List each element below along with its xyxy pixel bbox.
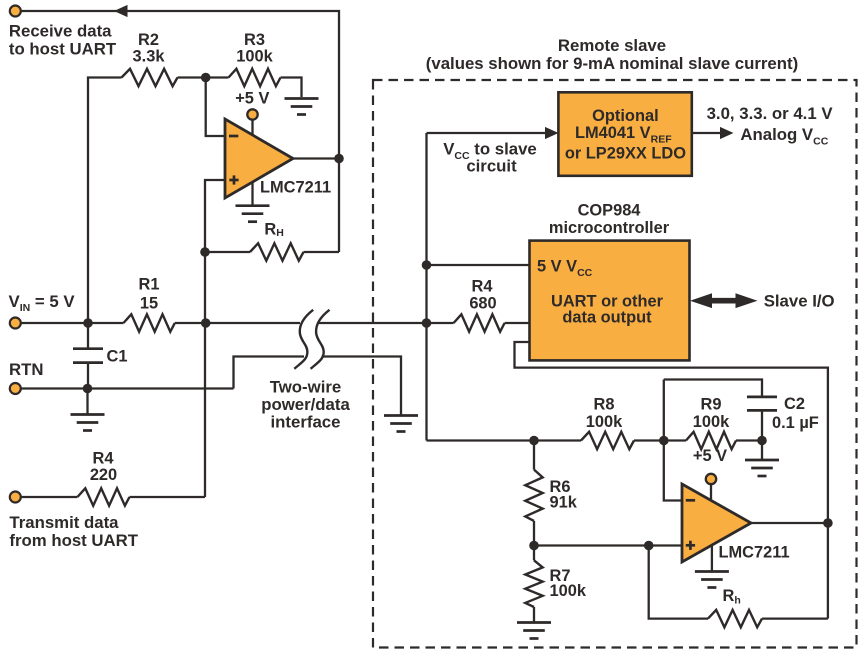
- svg-text:3.0, 3.3. or 4.1 V: 3.0, 3.3. or 4.1 V: [707, 104, 834, 123]
- node: opamp1 output junction: [334, 154, 344, 164]
- node: VIN/C1 junction: [83, 318, 93, 328]
- ground at R9/C2: [761, 441, 763, 460]
- svg-text:+5 V: +5 V: [693, 447, 727, 465]
- svg-text:100k: 100k: [236, 47, 273, 65]
- capacitor C1: [87, 323, 89, 348]
- svg-text:100k: 100k: [586, 413, 623, 431]
- op-amp U2 LMC7211: [682, 484, 751, 562]
- svg-text:interface: interface: [271, 412, 341, 431]
- wire: R1 right to main node: [175, 322, 206, 324]
- svg-text:R1: R1: [139, 276, 160, 294]
- wire: LM4041 output with arrow: [692, 132, 721, 134]
- svg-text:Optional: Optional: [592, 107, 658, 125]
- ground at two-wire interface: [384, 414, 418, 417]
- wire: R2 left lead + left vertical to VIN node: [88, 78, 122, 324]
- svg-text:R8: R8: [594, 396, 615, 414]
- svg-text:LMC7211: LMC7211: [260, 179, 331, 197]
- svg-text:VIN = 5 V: VIN = 5 V: [9, 292, 76, 314]
- svg-text:R4: R4: [472, 278, 494, 296]
- ground at RTN: [86, 389, 88, 414]
- svg-text:15: 15: [140, 295, 158, 313]
- svg-text:to host UART: to host UART: [9, 40, 117, 59]
- terminal VIN: [20, 322, 124, 324]
- svg-text:Transmit data: Transmit data: [9, 513, 119, 532]
- node: R9/C2/ground junction: [757, 436, 767, 446]
- svg-text:+5 V: +5 V: [235, 90, 269, 108]
- op-amp U1 LMC7211: [225, 119, 293, 198]
- wire: opamp1 non-inverting input to RH node: [205, 180, 225, 252]
- svg-text:0.1 µF: 0.1 µF: [772, 414, 819, 432]
- terminal transmit data: [10, 492, 21, 503]
- svg-text:100k: 100k: [550, 582, 587, 600]
- svg-text:from host UART: from host UART: [9, 531, 138, 550]
- wire: COP984 data pin to comparator output: [515, 342, 828, 619]
- wire: main node down to transmit branch: [204, 252, 206, 497]
- resistor R2 3.3k: [122, 69, 178, 86]
- svg-text:3.3k: 3.3k: [133, 47, 166, 65]
- node: RH left junction: [200, 247, 210, 257]
- svg-text:220: 220: [90, 466, 117, 484]
- wire: node A vertical to opamp2 inverting input: [664, 380, 682, 501]
- two-wire break squiggle right: [311, 310, 330, 369]
- resistor R1 15: [124, 314, 175, 331]
- double arrow: Slave I/O: [690, 293, 758, 308]
- node: opamp2 output junction: [823, 518, 833, 528]
- two-wire break squiggle left: [294, 310, 313, 369]
- node: R8/R9/inverting node A: [659, 436, 669, 446]
- capacitor C2 0.1 uF: [747, 396, 777, 399]
- ground at opamp2: [695, 570, 729, 573]
- ground stem opamp2: [711, 546, 713, 571]
- resistor R6 91k: [533, 441, 535, 470]
- svg-text:Remote slave: Remote slave: [558, 36, 666, 55]
- wire: opamp2 output: [751, 522, 828, 524]
- svg-text:R9: R9: [701, 396, 722, 414]
- wire: riser to LM4041 box with arrow: [427, 132, 547, 134]
- wire: opamp1 output to receive-data terminal: [21, 11, 339, 252]
- wire: R2 right to R3 left: [178, 76, 229, 78]
- wire: divider tap to opamp2 non-inverting input: [534, 544, 682, 546]
- wire: riser to 5V VCC pin: [427, 264, 530, 266]
- svg-text:Receive data: Receive data: [9, 21, 112, 40]
- svg-text:Slave I/O: Slave I/O: [764, 292, 835, 311]
- svg-text:Two-wire: Two-wire: [270, 378, 341, 397]
- terminal: receive data: [10, 6, 21, 17]
- node: main line / riser junction: [422, 318, 432, 328]
- wire: main line toward remote slave (break at squiggle): [206, 322, 300, 324]
- svg-text:100k: 100k: [693, 413, 730, 431]
- wire: opamp1 output: [293, 157, 339, 159]
- block: COP984 microcontroller: [530, 241, 690, 361]
- svg-text:microcontroller: microcontroller: [549, 219, 670, 237]
- svg-text:91k: 91k: [550, 494, 578, 512]
- supply terminal opamp1: [251, 119, 253, 136]
- node: RTN/C1/ground junction: [83, 384, 93, 394]
- wire: R3 right lead to ground: [281, 78, 302, 98]
- wire: VCC vertical riser in remote slave: [425, 133, 427, 441]
- svg-text:or LP29XX LDO: or LP29XX LDO: [565, 144, 686, 162]
- svg-text:RTN: RTN: [9, 360, 44, 379]
- wire: node A up and over to C2 top: [664, 380, 762, 397]
- svg-text:R2: R2: [138, 31, 159, 49]
- svg-text:R4: R4: [93, 450, 115, 468]
- wire: riser bottom to divider row: [427, 439, 582, 441]
- svg-text:circuit: circuit: [466, 157, 517, 176]
- svg-text:COP984: COP984: [578, 202, 642, 220]
- svg-text:680: 680: [469, 295, 496, 313]
- terminal RTN: [20, 387, 234, 389]
- block: Optional LM4041 VREF or LP29XX LDO: [558, 92, 691, 176]
- ground stem opamp1: [251, 183, 253, 206]
- ground at R3: [285, 97, 319, 100]
- remote slave dashed boundary box: [373, 80, 857, 648]
- resistor R3 100k: [229, 69, 281, 86]
- node: riser/VCC-pin junction: [422, 260, 432, 270]
- svg-text:power/data: power/data: [261, 395, 350, 414]
- svg-text:(values shown for 9-mA nominal: (values shown for 9-mA nominal slave cur…: [426, 54, 798, 73]
- node: R6/R7/non-inverting junction: [529, 541, 539, 551]
- svg-text:LMC7211: LMC7211: [719, 544, 790, 562]
- svg-text:C1: C1: [107, 348, 128, 366]
- svg-text:data output: data output: [562, 309, 652, 327]
- arrowhead toward receive terminal: [114, 5, 128, 17]
- wire: RTN return path to remote ground (break at squiggle): [234, 357, 305, 389]
- node: main line node: [201, 318, 211, 328]
- node: R6 top / R8 left: [529, 436, 539, 446]
- ground at R7: [517, 621, 551, 624]
- svg-text:C2: C2: [784, 395, 805, 413]
- node: R2/R3/inverting-input junction: [201, 73, 211, 83]
- node: Rh tap junction: [644, 541, 654, 551]
- resistor R7 100k: [525, 560, 542, 607]
- svg-text:R3: R3: [244, 31, 265, 49]
- ground at opamp1: [236, 204, 270, 207]
- supply terminal opamp2: [710, 483, 712, 501]
- wire: junction down to opamp1 inverting input: [206, 78, 225, 137]
